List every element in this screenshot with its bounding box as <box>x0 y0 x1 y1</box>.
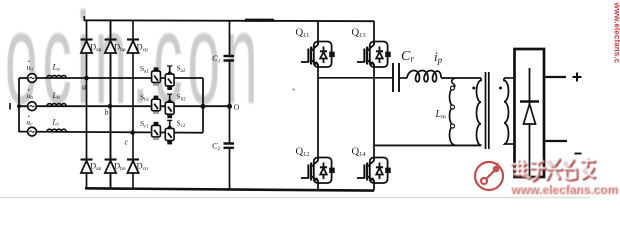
output minus sign <box>575 153 582 155</box>
diode Dap <box>81 40 93 54</box>
wire resonant to transformer top <box>441 77 481 79</box>
diode Dcn <box>127 160 139 174</box>
transformer secondary <box>504 78 509 144</box>
rectifier box <box>515 49 545 177</box>
wire phase a line <box>19 77 203 79</box>
wire top positive rail <box>84 19 374 22</box>
bottom separator line <box>0 197 590 199</box>
capacitor C1 <box>224 56 235 61</box>
wire phase c line <box>19 132 203 133</box>
switch Sa2 <box>165 66 174 90</box>
node c <box>130 130 135 135</box>
wire bottom negative rail <box>85 188 374 190</box>
elecfans logo circle <box>475 162 503 190</box>
wire column phase c diodes <box>132 21 134 190</box>
inductor Lr <box>407 71 441 82</box>
wire column phase a diodes <box>86 21 88 189</box>
wire secondary bottom to rectifier <box>504 143 515 145</box>
transformer secondary polarity dot <box>499 87 502 90</box>
stray speck <box>293 89 295 91</box>
inductor La <box>47 75 66 78</box>
wire bridge leg1 top <box>317 21 319 41</box>
transistor Q14 <box>357 158 391 184</box>
svg-text:a: a <box>82 83 86 92</box>
output plus sign <box>573 73 582 82</box>
wire capacitor column lower <box>229 148 231 189</box>
capacitor Cr <box>393 63 399 92</box>
inductor Lm <box>452 78 455 88</box>
switch Sa1 <box>152 67 161 85</box>
switch Sc2 <box>165 120 174 144</box>
wire column phase b diodes <box>110 21 112 190</box>
wire output positive <box>546 76 567 78</box>
node dot star point <box>17 104 21 108</box>
diode Dcp <box>127 40 139 54</box>
node b <box>108 104 113 109</box>
svg-text:O: O <box>234 103 240 112</box>
transformer core <box>486 72 489 149</box>
wire phase b line <box>19 105 230 107</box>
transistor Q13 <box>357 42 391 68</box>
ac source uc <box>28 127 37 136</box>
wire capacitor column upper <box>229 21 231 56</box>
inductor Lb <box>47 104 66 107</box>
wire bridge leg1 bottom <box>317 183 319 190</box>
node O <box>227 104 232 109</box>
ac source ua <box>28 74 37 83</box>
node switch bus junction <box>201 104 206 109</box>
wire bridge midpoint to resonant cap <box>318 77 393 79</box>
wire capacitor column middle <box>229 61 231 144</box>
wire left star bus <box>18 78 20 132</box>
wire top rail thick segment <box>245 19 274 22</box>
transistor Q12 <box>301 158 335 184</box>
switch Sc1 <box>152 122 161 140</box>
svg-text:www.elecfans.com: www.elecfans.com <box>509 182 617 196</box>
wire bridge leg1 middle <box>317 67 319 157</box>
inductor Lc <box>47 129 66 132</box>
switch Sb1 <box>152 96 161 114</box>
wire bridge leg2 bottom <box>373 183 375 191</box>
input terminal tick <box>9 103 11 110</box>
transformer primary polarity dot <box>472 87 475 90</box>
rectifier diode <box>529 68 531 176</box>
transistor Q11 <box>301 42 335 68</box>
wire leg2 midpoint to transformer bottom <box>374 144 481 146</box>
wire top rail start tick <box>83 16 85 21</box>
wire output negative <box>546 140 568 142</box>
wire secondary top to rectifier <box>504 77 515 79</box>
ac source ub <box>28 102 37 111</box>
wire bridge leg2 middle <box>373 67 375 157</box>
transformer primary <box>477 78 481 145</box>
svg-text:www.elecfans.c: www.elecfans.c <box>613 2 620 64</box>
node a <box>84 76 89 81</box>
diode Dbn <box>105 160 117 174</box>
svg-text:b: b <box>105 108 109 117</box>
capacitor C2 <box>224 144 235 148</box>
elecfans chinese watermark <box>512 159 595 181</box>
diode Dbp <box>105 40 117 54</box>
svg-text:c: c <box>125 138 129 147</box>
diode Dan <box>81 160 93 174</box>
switch Sb2 <box>165 94 174 118</box>
wire bridge leg2 top <box>373 21 375 41</box>
wire switch output bus vertical <box>202 78 204 133</box>
